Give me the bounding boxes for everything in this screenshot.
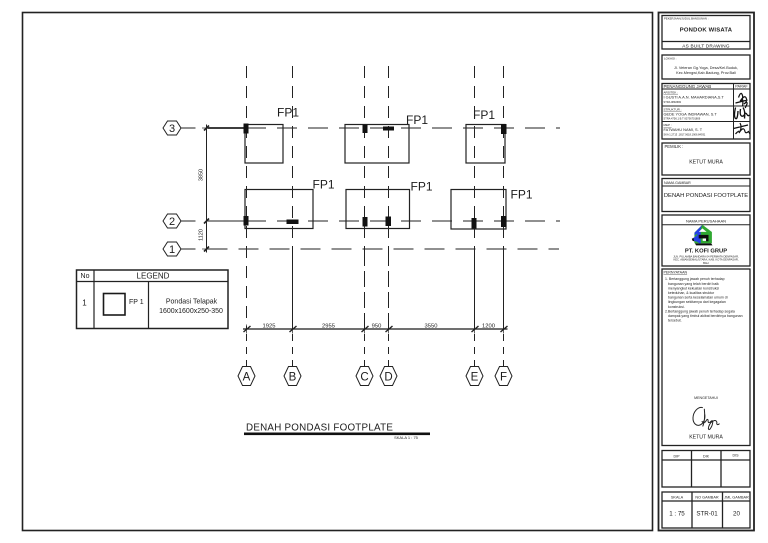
location box [662,55,750,79]
svg-text:1. Bertanggung jawab penuh ter: 1. Bertanggung jawab penuh terhadap [665,277,725,281]
statement box [662,269,750,446]
svg-text:2955: 2955 [322,324,335,330]
svg-text:FP1: FP1 [473,108,495,122]
svg-text:PARAF: PARAF [735,85,748,89]
column stub C/2 [363,217,368,227]
svg-text:LOKASI :: LOKASI : [664,57,677,61]
company logo [692,225,713,246]
svg-text:BALI: BALI [703,261,709,265]
signature 3 [734,123,751,134]
svg-text:FP1: FP1 [411,180,433,194]
grid line 1 horizontal [181,248,559,250]
svg-text:tersebut.: tersebut. [668,319,682,323]
svg-text:STR-01: STR-01 [696,511,718,518]
svg-text:NAMA PERUSAHAAN: NAMA PERUSAHAAN [686,219,726,224]
grid bubble 1 [163,242,181,256]
grid line A vertical [246,66,248,367]
column stub D/2 [386,217,392,227]
svg-text:DIK: DIK [703,455,710,459]
grid line E vertical [474,66,476,367]
page border [23,13,653,531]
column stub F/3 [501,124,507,134]
statement paragraph 1 [665,277,728,309]
grid bubble E [466,367,483,386]
signature 2 [735,108,750,119]
svg-text:SKA 1.2713 .1817.0618.1906.849: SKA 1.2713 .1817.0618.1906.84931 [664,133,706,137]
svg-text:dampak yang timbul akibat berd: dampak yang timbul akibat berdirinya ban… [668,314,743,318]
svg-text:Kec.Mengwi,Kab.Badung, Prov.Ba: Kec.Mengwi,Kab.Badung, Prov.Bali [676,71,736,75]
footplate FP1 row3 col E-F [466,125,505,164]
svg-text:KETUT MURA: KETUT MURA [689,160,723,166]
drawing name box [662,179,750,212]
svg-text:Pondasi Telapak: Pondasi Telapak [166,299,218,306]
vertical dimension line rows 3-2-1 [202,125,211,253]
column stub C/3 [363,125,368,134]
svg-text:Jl. Veteran Gg.Yoga, Desa/Kel.: Jl. Veteran Gg.Yoga, Desa/Kel.Buduk, [674,66,738,70]
grid bubble 2 [163,214,181,228]
svg-text:PENANGGUNG JAWAB: PENANGGUNG JAWAB [664,84,712,89]
grid line D vertical [388,66,390,367]
bottom dimension line [243,325,508,334]
svg-text:F: F [500,371,507,383]
scale table [662,492,750,528]
svg-text:bangunan serta keselamatan umu: bangunan serta keselamatan umum di [668,296,728,300]
grid bubble D [380,367,397,386]
svg-text:E: E [471,371,479,383]
svg-text:1120: 1120 [199,229,205,241]
svg-text:STRA 4756.1 B.T 00736701809: STRA 4756.1 B.T 00736701809 [664,117,701,121]
svg-text:PONDOK WISATA: PONDOK WISATA [680,28,733,34]
svg-text:DENAH PONDASI FOOTPLATE: DENAH PONDASI FOOTPLATE [664,193,748,199]
svg-text:1600x1600x250-350: 1600x1600x250-350 [159,308,223,315]
column stub A/2 [244,216,249,226]
svg-text:DIP: DIP [674,455,681,459]
footplate FP1 row3 col C-D [345,125,409,164]
svg-text:SKALA 1 : 75: SKALA 1 : 75 [394,435,419,440]
footplate FP1 row2 col A-B [245,190,313,229]
svg-text:1: 1 [169,244,175,256]
svg-text:C: C [360,371,368,383]
svg-text:1 : 75: 1 : 75 [669,511,685,518]
svg-text:3850: 3850 [199,169,205,181]
svg-text:1200: 1200 [482,324,495,330]
grid line 2 horizontal [181,220,560,222]
svg-text:FP1: FP1 [511,188,533,202]
title underline [244,433,430,436]
svg-text:FATWAHU NAMI, S. T: FATWAHU NAMI, S. T [664,127,703,132]
footplate FP1 row2 col C-D [346,190,410,229]
svg-text:PEKERJAAN/JUDUL BANGUNAN :: PEKERJAAN/JUDUL BANGUNAN : [664,17,709,21]
svg-text:2: 2 [169,216,175,228]
svg-text:PEMILIK :: PEMILIK : [665,144,684,149]
svg-text:D: D [384,371,392,383]
svg-text:menyangkut kekuatan konstruksi: menyangkut kekuatan konstruksi [668,286,719,290]
svg-text:NAMA GAMBAR: NAMA GAMBAR [664,181,691,185]
svg-text:konstruksi.: konstruksi. [668,305,685,309]
svg-text:FP1: FP1 [406,113,428,127]
svg-text:FP 1: FP 1 [129,299,144,306]
svg-text:950: 950 [372,324,382,330]
column stub B/2 [287,220,299,225]
row 3 mep [664,123,706,137]
statement paragraph 2 [665,309,743,322]
company box [662,215,750,266]
svg-text:FP1: FP1 [313,178,335,192]
column stub D/3 [383,127,394,131]
grid line C vertical [364,66,366,367]
project box [662,16,750,50]
dip dik dis table [662,451,750,488]
signature 1 [736,93,748,108]
grid line F vertical [503,66,505,367]
svg-text:MENGETAHUI: MENGETAHUI [694,396,718,400]
responsible persons table [662,84,750,140]
approver signature [693,407,720,429]
svg-text:PT. KOFI GRUP: PT. KOFI GRUP [685,249,727,255]
svg-text:NO GAMBAR: NO GAMBAR [695,496,718,500]
footplate FP1 row2 col E-F [451,190,506,230]
row 1 arsitek [664,91,725,105]
svg-text:I GUSTI A.A.N. MAHARDIANA,S.T: I GUSTI A.A.N. MAHARDIANA,S.T [664,95,725,100]
grid bubble B [284,367,301,386]
owner box [662,143,750,175]
column stub F/2 [501,216,507,227]
svg-text:JML GAMBAR: JML GAMBAR [724,496,749,500]
svg-text:STRA 0892682: STRA 0892682 [664,100,682,104]
column stub E/2 [472,218,477,229]
grid bubble A [238,367,255,386]
svg-text:3550: 3550 [425,324,438,330]
grid bubble C [356,367,373,386]
title block outer frame [659,13,755,531]
svg-text:1: 1 [82,299,87,308]
svg-text:20: 20 [733,511,740,518]
legend box [77,270,229,329]
legend symbol square [104,294,126,316]
svg-text:DENAH PONDASI FOOTPLATE: DENAH PONDASI FOOTPLATE [246,423,393,434]
svg-text:SKALA: SKALA [671,496,684,500]
svg-text:2.Bertanggung jawab penuh terh: 2.Bertanggung jawab penuh terhadap segal… [665,309,735,313]
svg-text:lingkungan sekitarnya dari keg: lingkungan sekitarnya dari kegagalan [668,300,726,304]
svg-text:keteduhan, & kualitas struktur: keteduhan, & kualitas struktur [668,291,715,295]
grid bubble F [495,367,512,386]
svg-text:FP1: FP1 [277,106,299,120]
svg-text:B: B [289,371,297,383]
svg-text:bangunan yang telah berdiri ba: bangunan yang telah berdiri baik [668,282,719,286]
svg-text:AS BUILT DRAWING: AS BUILT DRAWING [682,43,730,48]
svg-text:1925: 1925 [263,324,276,330]
column stub A/3 [244,124,249,134]
row 2 sipil [664,108,718,121]
grid bubble 3 [163,121,181,135]
grid line B vertical [292,66,294,367]
svg-text:KETUT MURA: KETUT MURA [689,435,723,441]
svg-text:GEDE YOGA INDRAWAN, S.T: GEDE YOGA INDRAWAN, S.T [664,112,718,117]
svg-text:A: A [243,371,251,383]
svg-text:No: No [81,273,90,280]
svg-text:DIS: DIS [733,454,740,458]
svg-text:LEGEND: LEGEND [137,272,170,281]
grid line 3 horizontal [181,127,560,129]
svg-text:PERNYATAAN: PERNYATAAN [664,271,688,275]
svg-text:3: 3 [169,123,175,135]
footplate FP1 row3 col A [245,125,283,164]
